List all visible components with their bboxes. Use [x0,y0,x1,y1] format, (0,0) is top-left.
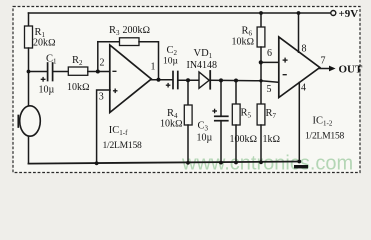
svg-text:10µ: 10µ [163,57,179,67]
resistor R5 [232,104,240,125]
node R4 ground [186,161,190,165]
wire feedback riser [97,42,99,72]
wire R6 from top rail [260,13,262,27]
wire left rail upper [28,13,30,26]
svg-text:5: 5 [267,84,272,95]
capacitor C1 plates [47,63,49,81]
U2 minus [283,74,287,76]
wire mic to bottom rail [28,136,30,163]
op-amp input polarity marks [41,58,288,114]
microphone BM [20,106,41,136]
svg-text:2: 2 [100,58,105,69]
svg-text:10µ: 10µ [197,133,213,144]
wire C1 to R2 [54,71,69,73]
svg-text:+9V: +9V [339,8,359,20]
wire node column R6/pin6/R7 [260,47,262,104]
svg-text:10kΩ: 10kΩ [160,119,183,130]
wire pin4 to bottom rail [298,83,300,162]
wire R3 to output node [139,42,159,80]
svg-text:4: 4 [301,83,306,94]
svg-text:1kΩ: 1kΩ [263,134,281,145]
node R7 ground [259,160,263,164]
node pin8 top rail [297,11,301,15]
svg-text:200kΩ: 200kΩ [123,25,151,36]
U1 minus [112,70,116,72]
op-amp U1 triangle [110,45,152,113]
capacitor C3 plates [215,115,228,117]
svg-text:www.cntronics.com: www.cntronics.com [181,153,353,175]
node pin6/R6 junction [259,60,263,64]
svg-text:10µ: 10µ [39,85,55,96]
wire output pin7 [320,68,330,70]
node R6 top rail [259,11,263,15]
resistor R7 [257,104,265,125]
wire bottom rail [29,162,300,164]
svg-text:10kΩ: 10kΩ [67,82,90,93]
wire C3 to bottom rail [220,121,222,163]
op-amp U2 triangle [279,37,320,98]
wire op-amp1 output to C2 [151,79,172,81]
svg-text:6: 6 [267,48,272,59]
wire R5 to bottom rail [235,125,237,163]
wire pin8 supply [298,13,300,52]
svg-text:OUT: OUT [339,64,364,76]
wire left rail lower [28,48,30,106]
svg-text:100kΩ: 100kΩ [230,134,258,145]
U1 plus [113,90,118,92]
svg-text:8: 8 [302,44,307,55]
svg-text:1/2LM158: 1/2LM158 [103,140,142,151]
wire feedback top [98,41,120,43]
wire R7 to bottom rail [260,125,262,162]
svg-text:1/2LM158: 1/2LM158 [305,131,344,142]
node C1 tap on left rail [27,70,31,74]
node output/feedback junction [156,78,160,82]
svg-text:7: 7 [321,56,326,67]
svg-text:IN4148: IN4148 [187,60,218,71]
wire top rail +9V [29,12,331,14]
diode VD1 [199,72,209,88]
resistor R3 [120,38,140,46]
resistor R1 [25,26,33,48]
wire C2 to diode [179,79,199,81]
wire C1 branch [29,71,47,73]
OUT arrow [329,66,336,72]
C1 plus [41,78,46,80]
wire diode to op-amp2 pin5 [211,80,279,82]
node pin4 ground [297,160,301,164]
node signal crossing [259,79,262,82]
resistor R6 [257,27,265,47]
node R5 ground [234,161,238,165]
svg-text:20kΩ: 20kΩ [33,38,56,49]
resistor R2 [68,67,88,75]
wire R4 branch down [187,80,189,105]
node C3 tap [219,78,223,82]
C2 plus [166,84,171,86]
svg-text:10kΩ: 10kΩ [232,37,255,48]
wire R2 to op-amp pin 2 [88,71,110,73]
C3 plus [212,110,217,112]
node feedback tap [96,70,100,74]
+9V terminal [331,11,336,16]
ground bar [294,165,308,168]
node R5 tap [234,79,238,83]
resistor R4 [184,105,192,125]
dashed enclosure border [13,7,360,173]
node C3 ground [219,161,223,165]
wire C3 branch down [220,80,222,116]
node dots [27,11,302,165]
svg-text:3: 3 [99,92,104,103]
svg-text:1: 1 [151,62,156,73]
wire pin6 input [261,61,279,63]
wire pin3 input [97,90,110,163]
wire R4 to bottom rail [187,125,189,163]
capacitor C2 plates [172,72,174,89]
node R4 tap [186,78,190,82]
wire R5 branch down [235,81,237,105]
U2 plus [283,59,288,61]
node pin3 ground [95,161,99,165]
